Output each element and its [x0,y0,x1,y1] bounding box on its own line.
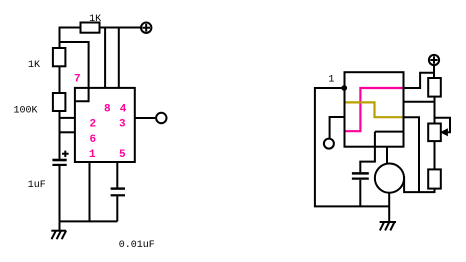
svg-text:6: 6 [90,134,97,146]
svg-text:2: 2 [90,119,97,131]
svg-text:8: 8 [104,104,111,116]
svg-text:7: 7 [74,74,81,86]
svg-text:100K: 100K [14,106,38,117]
svg-text:1K: 1K [89,14,101,25]
svg-text:4: 4 [120,104,127,116]
svg-text:0.01uF: 0.01uF [119,240,155,251]
svg-text:1K: 1K [28,60,40,71]
svg-text:1: 1 [328,75,334,86]
svg-text:1: 1 [89,149,96,161]
svg-text:1uF: 1uF [28,180,46,191]
svg-text:5: 5 [119,149,126,161]
svg-text:3: 3 [119,119,126,131]
